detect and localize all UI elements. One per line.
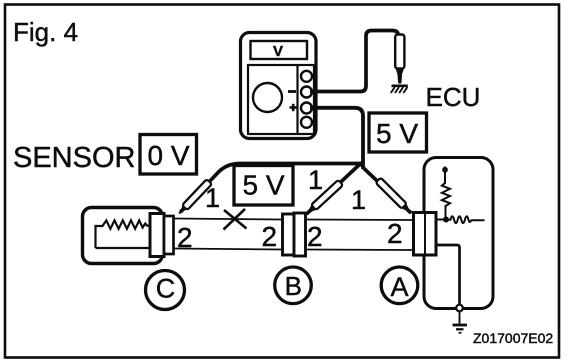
svg-text:Fig. 4: Fig. 4	[13, 17, 78, 47]
wire connector A pin 2 to ground node	[436, 245, 460, 305]
probe at A pin 1	[376, 178, 414, 216]
svg-text:A: A	[390, 272, 408, 302]
svg-text:C: C	[156, 274, 176, 304]
node C	[146, 271, 185, 310]
svg-text:V: V	[273, 43, 283, 60]
svg-text:5 V: 5 V	[376, 118, 418, 149]
wire 1 from B to A	[306, 219, 414, 222]
svg-text:2: 2	[307, 221, 323, 252]
ground	[453, 312, 468, 333]
pull-up resistor in ECU	[442, 167, 450, 219]
probe (negative, to body ground)	[395, 35, 404, 84]
svg-text:1: 1	[308, 165, 323, 195]
wire probe lead to connector B pin 1	[307, 165, 360, 215]
svg-text:1: 1	[351, 185, 366, 215]
svg-text:0 V: 0 V	[147, 140, 189, 171]
internal node dot	[443, 217, 449, 223]
wire node to connector A	[436, 219, 446, 221]
wire multimeter positive terminal to probe junction	[310, 108, 363, 169]
multimeter	[241, 33, 317, 139]
internal resistor (squiggle)	[446, 216, 485, 223]
value label 5 V at A	[369, 113, 427, 152]
svg-text:ECU: ECU	[426, 82, 481, 112]
junction of probe leads	[358, 161, 363, 166]
value label 0 V	[140, 135, 197, 175]
node B	[275, 267, 312, 304]
svg-text:SENSOR: SENSOR	[13, 142, 135, 174]
svg-text:5 V: 5 V	[242, 170, 284, 201]
svg-text:B: B	[285, 271, 302, 301]
sensor	[83, 208, 163, 264]
svg-text:2: 2	[387, 218, 403, 249]
value label 5 V at B	[234, 166, 293, 206]
open circuit mark X	[224, 209, 247, 230]
wire 1 from C to B (open)	[174, 219, 283, 220]
connector C	[150, 214, 174, 257]
connector A	[414, 213, 437, 256]
probe at B pin 1	[304, 180, 343, 217]
node A	[381, 267, 418, 304]
sensor resistor	[96, 220, 151, 248]
wire probe lead to connector A pin 1	[364, 168, 412, 213]
body ground	[391, 86, 408, 93]
wire probe lead to connector C pin 1	[181, 164, 364, 213]
svg-text:2: 2	[262, 221, 278, 252]
svg-text:1: 1	[205, 183, 220, 213]
connector B	[283, 213, 306, 256]
svg-text:Z017007E02: Z017007E02	[473, 330, 553, 346]
probe at C pin 1	[177, 179, 213, 216]
supply node dot	[442, 167, 448, 173]
wire multimeter negative terminal to top probe	[310, 31, 398, 92]
svg-text:2: 2	[177, 222, 193, 253]
wire 2 from B to A	[306, 249, 414, 252]
ECU box	[424, 158, 493, 309]
ground node on ECU box edge	[456, 305, 463, 312]
wire 2 from C to B	[174, 249, 283, 250]
